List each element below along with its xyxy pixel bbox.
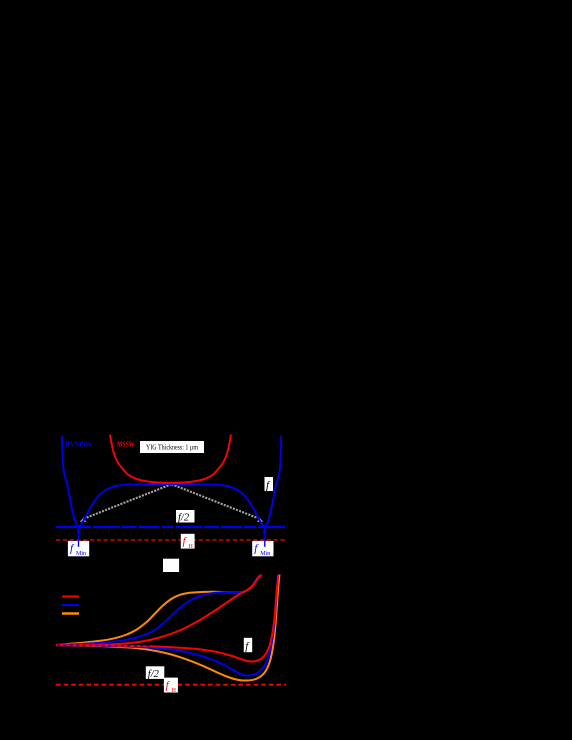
legend orange line [62,612,79,615]
YIG Thickness white box label [140,441,204,453]
svg-text:H: H [172,688,177,694]
svg-text:Min: Min [76,551,86,557]
f label (top plot, right) [265,477,274,492]
red dashed f_H horizontal line (top plot) [56,539,287,541]
f_Min label left [68,541,89,557]
svg-text:f/2: f/2 [148,669,160,680]
svg-text:MSSW: MSSW [117,441,135,449]
red upper S-curve [56,574,262,646]
blue up-arrow at right minimum [262,528,267,547]
svg-text:f/2: f/2 [178,513,190,524]
blue dashed f/2 horizontal line [56,526,286,528]
MSSW label [117,441,135,449]
legend red line [62,596,79,598]
orange upper S-curve [56,574,260,646]
f/2 label (bottom plot) [146,666,165,680]
f_H label (top plot) [181,534,195,550]
svg-text:BVMSW: BVMSW [65,441,93,449]
blue upper S-curve [56,574,260,646]
f label (bottom plot) [244,638,252,653]
f_H label (bottom plot) [164,678,178,694]
gray dotted arrow to right minimum [172,484,264,522]
f_Min label right [252,541,273,557]
red lower dipping curve [56,575,278,662]
svg-text:H: H [189,544,194,550]
orange lower dipping curve [56,575,280,681]
BVMSW label [65,441,93,449]
MSSW red dispersion curve (U shape) [110,435,231,483]
baseline overlap dashes (red over blue at left) [57,644,150,647]
svg-text:YIG Thickness: 1 µm: YIG Thickness: 1 µm [146,443,198,452]
red dashed f_H line (bottom plot) [56,684,286,686]
blue up-arrow at left minimum [76,528,81,547]
white spacer box between plots [163,559,179,572]
f/2 label (top plot) [176,510,195,524]
gray dotted arrow to left minimum [80,484,172,522]
blue lower dipping curve [56,575,278,676]
svg-text:Min: Min [260,551,270,557]
legend blue line [62,604,79,606]
BVMSW blue dispersion curve (W shape) [62,436,281,527]
